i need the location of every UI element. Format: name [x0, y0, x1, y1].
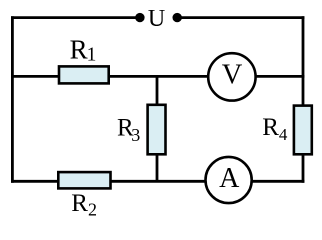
svg-text:U: U	[148, 6, 165, 32]
resistor R3	[148, 105, 166, 155]
terminal dot right	[173, 13, 182, 22]
wire top right segment	[177, 16, 304, 19]
wire bottom	[11, 180, 304, 183]
ammeter A1 circle	[206, 157, 252, 203]
svg-text:V: V	[222, 59, 243, 90]
wire left edge	[11, 16, 14, 183]
wire R3 vertical branch	[156, 76, 159, 181]
resistor R1	[59, 66, 109, 83]
wire top left segment	[11, 16, 140, 19]
terminal dot left	[135, 13, 144, 22]
resistor R2	[58, 172, 110, 188]
svg-text:A: A	[219, 163, 240, 194]
resistor R4	[294, 106, 312, 155]
wire right edge	[302, 16, 305, 183]
wire middle horizontal	[11, 75, 304, 78]
voltmeter V1 circle	[208, 53, 255, 100]
